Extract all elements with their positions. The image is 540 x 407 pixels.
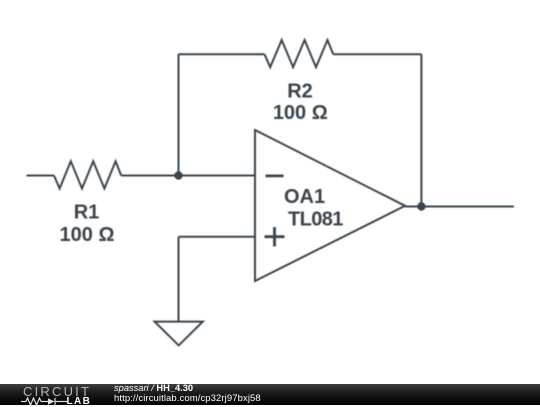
wire feedback vertical right [420,54,422,206]
svg-text:TL081: TL081 [288,208,343,230]
svg-text:R2: R2 [287,81,313,103]
svg-text:OA1: OA1 [284,186,325,208]
resistor R2 [265,40,334,67]
CircuitLab logo schematic squiggle [21,397,67,406]
op-amp OA1 triangle [255,130,405,281]
footer bar [0,384,540,405]
op-amp OA1 inverting input marker [266,174,284,177]
op-amp OA1 noninverting input marker [265,227,285,247]
resistor R1 [54,161,121,188]
node junction output/feedback [417,202,425,210]
wire R1 to inverting input [121,175,255,177]
wire input left [27,175,55,177]
node junction R1/feedback [174,171,182,179]
svg-text:100 Ω: 100 Ω [60,224,115,246]
footer url [114,393,261,404]
footer author / title [114,383,193,393]
wire feedback top left [179,53,265,55]
svg-text:100 Ω: 100 Ω [273,102,328,124]
ground [155,322,203,346]
wire output [405,206,514,208]
wire R2 to corner [333,53,421,55]
svg-text:R1: R1 [74,202,100,224]
CircuitLab logo wordmark [23,384,91,399]
wire feedback vertical left [178,54,180,175]
wire noninverting input [179,236,256,238]
CircuitLab logo LAB [67,396,92,407]
wire ground vertical [178,237,180,322]
